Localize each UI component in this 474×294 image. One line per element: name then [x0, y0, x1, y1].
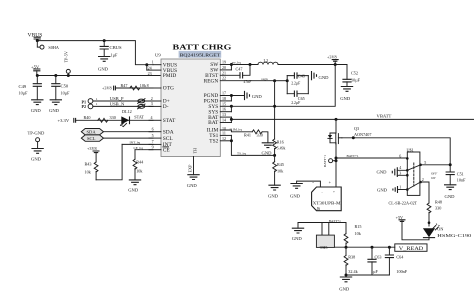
svg-text:C63: C63 [375, 255, 382, 260]
wire STAT net [76, 119, 153, 121]
power +3.3V flag [58, 118, 76, 123]
svg-text:TP-5V: TP-5V [64, 51, 69, 62]
svg-text:OFF: OFF [431, 171, 437, 175]
svg-text:1: 1 [399, 184, 401, 189]
wire BATT+ to switch [336, 157, 407, 159]
svg-text:BATT CHRG: BATT CHRG [173, 43, 232, 52]
wire LED to +5V [402, 221, 429, 240]
ground TH5 [292, 228, 304, 233]
node junction PGND [230, 94, 233, 97]
wire BATT+ down to connector [335, 158, 337, 187]
svg-text:OTG: OTG [163, 86, 174, 92]
svg-text:10k: 10k [136, 168, 143, 173]
ground R41 [262, 143, 274, 148]
svg-text:100nF: 100nF [396, 269, 407, 274]
wire REGN to caps [275, 80, 288, 82]
ground divider [340, 277, 352, 282]
node junction TS [230, 139, 233, 142]
LED DS ON HSMG-C190 [423, 221, 471, 238]
pin stub 16 [220, 107, 231, 112]
svg-text:HSMG-C190: HSMG-C190 [437, 233, 471, 238]
svg-text:330: 330 [435, 205, 441, 210]
svg-text:BAT: BAT [208, 120, 219, 126]
ground TP-GND [31, 149, 43, 154]
capacitor C48 2.2uF [287, 72, 308, 85]
svg-text:10nF: 10nF [457, 178, 466, 183]
pin stub 19 [220, 59, 231, 64]
capacitor C65 2.2uF [287, 91, 308, 105]
ground R45 [268, 185, 280, 190]
svg-text:2.2µF: 2.2µF [291, 101, 300, 105]
power +3V8 flag OTG [102, 86, 115, 91]
node junction C49 [36, 74, 39, 77]
node junction REGN [273, 79, 276, 82]
svg-text:USB_N: USB_N [110, 102, 125, 107]
connector J6 XT30UPB-M [312, 180, 342, 211]
svg-text:7: 7 [152, 139, 154, 144]
IC U9 BQ24195 body [161, 59, 220, 157]
pin stub 14 [220, 118, 231, 123]
node junction gate/C51 [449, 163, 452, 166]
svg-text:3: 3 [151, 101, 153, 106]
wire Q3 gate net [342, 138, 450, 172]
pin stub 22 [220, 76, 274, 81]
wire SW tie [230, 65, 232, 70]
pin EXP pad stub [188, 157, 194, 175]
svg-text:sw_bq: sw_bq [232, 61, 241, 65]
ground C52 [341, 87, 353, 92]
svg-text:10µF: 10µF [61, 90, 71, 95]
svg-text:CBUS: CBUS [110, 45, 122, 50]
ground R44 [129, 180, 141, 185]
svg-text:GND: GND [31, 157, 42, 162]
svg-text:C50: C50 [61, 83, 69, 88]
svg-text:R48: R48 [435, 199, 442, 204]
svg-text:10k: 10k [140, 83, 147, 88]
svg-text:C52: C52 [351, 70, 358, 75]
pin stub 8 [147, 83, 161, 88]
wire TH5 gnd stem [297, 223, 299, 229]
svg-text:R43: R43 [85, 161, 92, 166]
resistor R15 10k [344, 223, 362, 248]
connector P2 [82, 102, 98, 109]
thermistor TH5 [316, 235, 334, 250]
svg-text:P2: P2 [82, 104, 87, 109]
pin stub 11 [220, 130, 231, 135]
wire switch pin2 [421, 182, 429, 203]
node junction C47/SW [249, 63, 252, 66]
node junction CBUS [103, 39, 106, 42]
node junction pin1 [145, 63, 148, 66]
svg-text:16: 16 [222, 107, 226, 112]
svg-text:20: 20 [222, 65, 226, 70]
ground C48 sideways [312, 71, 317, 80]
wire switch pin5 to gate net [421, 164, 451, 166]
node junction R16/R45 [273, 154, 276, 157]
jumper USB_N [138, 104, 145, 109]
svg-text:CE: CE [163, 147, 171, 153]
svg-text:6: 6 [152, 126, 154, 131]
pin stub 13 [220, 112, 231, 117]
svg-text:10µF: 10µF [351, 77, 361, 82]
svg-text:GND: GND [128, 187, 139, 192]
power +5V flag LED [396, 215, 406, 222]
svg-text:R15: R15 [355, 224, 362, 229]
pin stub 12 [220, 136, 231, 141]
svg-text:REGN: REGN [204, 78, 219, 84]
pin stub 20 [220, 65, 231, 70]
svg-text:regn: regn [262, 77, 268, 81]
svg-text:BATT+1: BATT+1 [329, 219, 341, 223]
svg-text:+3.3V: +3.3V [58, 118, 70, 123]
capacitor C64 100nF [385, 247, 408, 275]
net SDA oval [81, 129, 103, 135]
pin stub 6 [149, 126, 161, 131]
resistor R38 32.4k [344, 247, 359, 275]
svg-text:R40: R40 [84, 115, 91, 120]
jumper USB_P [138, 99, 145, 104]
wire caps left rail [286, 76, 288, 94]
svg-text:GND: GND [252, 94, 263, 99]
node junction SYS/chain [273, 105, 276, 108]
svg-text:+3V8: +3V8 [327, 55, 337, 60]
ground switch pin1 sideways [377, 186, 407, 193]
svg-text:21: 21 [222, 70, 226, 75]
resistor R45 10k [273, 155, 284, 185]
node VBUS flag [28, 33, 43, 40]
value highlight BQ24195LRGET [179, 51, 222, 58]
svg-text:23: 23 [148, 71, 152, 76]
svg-text:330: 330 [110, 115, 116, 120]
capacitor C63 1uF [367, 247, 381, 275]
svg-text:XT30UPB-M: XT30UPB-M [313, 200, 341, 205]
testpoint BATT+1 [323, 155, 338, 167]
svg-text:GND: GND [319, 75, 330, 80]
pin stub 15 [220, 101, 231, 106]
svg-text:1: 1 [96, 102, 98, 106]
node junction caps left [286, 79, 289, 82]
svg-text:2: 2 [422, 177, 424, 182]
node junction VBUS/TP [36, 39, 39, 42]
node junction SYS [230, 105, 233, 108]
svg-text:R47: R47 [121, 83, 128, 88]
svg-text:1µF: 1µF [371, 269, 379, 274]
capacitor CBUS [100, 41, 122, 58]
pin stub 3 [149, 101, 161, 106]
svg-text:R45: R45 [277, 162, 284, 167]
svg-text:BQ24195LRGET: BQ24195LRGET [180, 52, 221, 57]
svg-text:10µF: 10µF [19, 90, 29, 95]
svg-text:VBATT: VBATT [377, 114, 392, 119]
capacitor C52 10uF [342, 65, 360, 87]
svg-text:11: 11 [222, 130, 226, 135]
svg-text:1: 1 [96, 97, 98, 101]
svg-text:C64: C64 [396, 255, 404, 260]
svg-text:TP-GND: TP-GND [28, 131, 46, 136]
wire connector minus to ground [297, 181, 321, 187]
svg-text:5: 5 [424, 160, 426, 165]
pin stub 9 [149, 145, 161, 150]
svg-text:C48: C48 [298, 73, 305, 78]
svg-text:GND: GND [377, 187, 388, 192]
node junction R15/R38 [345, 246, 348, 249]
resistor R40 330 [84, 115, 116, 122]
pin stub 1 [152, 60, 161, 65]
svg-text:330: 330 [257, 133, 263, 138]
capacitor C50 10uF [51, 76, 70, 100]
wire INT [122, 143, 153, 145]
resistor R48 330 [427, 199, 442, 226]
svg-text:GND: GND [187, 183, 198, 188]
power +3V8 flag rail [327, 55, 339, 65]
wire VBUS pin tie [146, 65, 148, 70]
ground EXP [187, 175, 199, 180]
wire caps right rail [307, 76, 309, 94]
label OFF ON [431, 171, 437, 180]
pin stub 23 [148, 71, 152, 76]
power +3V8 flag R43 [87, 146, 100, 153]
svg-text:8: 8 [147, 83, 149, 88]
svg-text:10k: 10k [277, 168, 284, 173]
ground connector [290, 184, 302, 189]
svg-text:C49: C49 [19, 84, 27, 89]
node junction C64 top [388, 246, 391, 249]
node junction gate [352, 136, 355, 139]
svg-text:INT_bq: INT_bq [130, 140, 141, 144]
svg-text:V_READ: V_READ [399, 247, 424, 252]
wire TH5 top rail [298, 222, 346, 224]
svg-text:24: 24 [148, 66, 152, 71]
pin stub 17 [220, 91, 244, 96]
svg-text:BATT+1: BATT+1 [347, 154, 359, 158]
wire BAT tie [230, 117, 232, 122]
svg-text:10k: 10k [85, 170, 92, 175]
svg-text:USB_P: USB_P [110, 96, 124, 101]
svg-text:+: + [333, 190, 335, 194]
svg-text:D-: D- [163, 104, 169, 110]
wire USB_P [93, 100, 153, 102]
svg-text:22: 22 [222, 76, 226, 81]
svg-text:R38: R38 [348, 254, 355, 259]
testpoint SOHA [40, 45, 44, 49]
svg-text:TH5: TH5 [320, 245, 328, 250]
svg-text:DL12: DL12 [122, 109, 132, 114]
resistor R47 10k [121, 83, 147, 90]
svg-text:3: 3 [399, 170, 401, 175]
pin name CE [163, 147, 171, 154]
svg-text:17: 17 [222, 91, 226, 96]
svg-text:Q3: Q3 [354, 126, 359, 131]
svg-text:C47: C47 [236, 67, 243, 72]
node junction SW [230, 63, 233, 66]
svg-text:5.49k: 5.49k [277, 146, 286, 150]
svg-text:2: 2 [151, 96, 153, 101]
wire TH5 pins [322, 223, 329, 236]
pin stub 4 [149, 115, 161, 120]
wire USB_N [93, 105, 153, 107]
svg-text:TH: TH [193, 148, 198, 154]
wire sense node row [335, 246, 395, 248]
node junction gnd row [345, 274, 348, 277]
svg-text:TS_bq: TS_bq [237, 151, 246, 155]
wire L2 to +3V8 rail [278, 64, 347, 66]
net V_READ box [395, 244, 427, 252]
capacitor C51 10nF [446, 172, 466, 185]
wire TP stub [37, 41, 40, 48]
svg-text:U9: U9 [155, 53, 161, 58]
svg-text:+3V8: +3V8 [102, 86, 112, 91]
ground PGND sideways [245, 91, 250, 100]
svg-text:12: 12 [222, 136, 226, 141]
svg-text:R16: R16 [277, 139, 284, 144]
ground C49 [31, 100, 43, 105]
wire INT pulldown [96, 144, 122, 179]
net SCL oval [81, 135, 103, 141]
resistor R16 5.49k [273, 139, 286, 155]
svg-text:S0HA: S0HA [48, 45, 58, 50]
node junction C50 [54, 74, 57, 77]
LED DL12 [120, 109, 132, 127]
svg-text:GND: GND [339, 287, 350, 292]
wire REGN vertical chain [274, 81, 276, 139]
svg-text:GND: GND [268, 193, 279, 198]
svg-text:15: 15 [222, 101, 226, 106]
wire SW to L2 [231, 64, 258, 66]
transistor Q3 AON7407 [328, 119, 372, 158]
svg-text:+3V8: +3V8 [87, 146, 97, 151]
pin stub 7 [149, 139, 161, 144]
wire OTG [115, 87, 153, 89]
svg-text:GND: GND [377, 170, 388, 175]
svg-text:AON7407: AON7407 [354, 132, 371, 137]
svg-text:GND: GND [31, 108, 42, 113]
svg-text:CL-SB-22A-02T: CL-SB-22A-02T [389, 200, 418, 205]
svg-text:GND: GND [49, 108, 60, 113]
svg-text:19: 19 [222, 59, 226, 64]
ground CBUS [98, 57, 110, 62]
svg-text:STAT: STAT [163, 118, 176, 124]
capacitor C49 10uF [19, 76, 42, 100]
svg-text:6: 6 [399, 153, 401, 158]
svg-text:SCL: SCL [163, 136, 173, 142]
svg-text:TS2: TS2 [209, 139, 218, 145]
svg-text:1: 1 [152, 60, 154, 65]
svg-text:J6: J6 [317, 206, 321, 211]
svg-text:18: 18 [222, 96, 226, 101]
inductor L2 [258, 58, 278, 65]
ground C51 [444, 185, 456, 190]
svg-text:GND: GND [262, 150, 273, 155]
wire gnd row [346, 274, 389, 276]
node junction VBATT/Q3 [335, 118, 338, 121]
pin stub 18 [220, 96, 231, 101]
svg-text:BATT+1: BATT+1 [323, 155, 327, 167]
wire TS tie [231, 135, 274, 155]
pin stub 2 [149, 96, 161, 101]
svg-text:32.4k: 32.4k [348, 269, 358, 274]
svg-text:GND: GND [340, 96, 351, 101]
svg-text:SCL: SCL [87, 136, 96, 141]
pin stub 10 ILIM [220, 126, 252, 132]
testpoint TP-GND [28, 131, 46, 149]
svg-text:SDA: SDA [87, 130, 97, 135]
svg-text:GND: GND [445, 194, 456, 199]
svg-text:13: 13 [222, 112, 226, 117]
svg-text:-: - [322, 190, 323, 194]
svg-text:14: 14 [222, 118, 226, 123]
node junction BATT+ [335, 157, 338, 160]
svg-text:ON: ON [437, 227, 443, 232]
svg-text:EXP: EXP [188, 164, 193, 173]
svg-text:2.2µF: 2.2µF [291, 82, 300, 86]
node junction C63 top [371, 246, 374, 249]
svg-text:5: 5 [152, 133, 154, 138]
wire SDA [104, 131, 154, 133]
svg-text:1µF: 1µF [111, 53, 119, 58]
capacitor C47 47nF [236, 65, 252, 84]
pin stub 24 [147, 66, 161, 71]
svg-text:STAT: STAT [134, 115, 144, 120]
wire PGND tie [230, 96, 232, 101]
connector P1 [82, 97, 98, 105]
wire CE [135, 149, 153, 151]
power +5V flag [31, 64, 40, 75]
ground switch pin4 sideways [377, 167, 408, 177]
svg-text:GND: GND [98, 67, 109, 72]
node junction rail [334, 63, 337, 66]
svg-text:ILIM_bq: ILIM_bq [230, 128, 243, 132]
resistor R41 330 [244, 130, 268, 143]
svg-text:C51: C51 [457, 172, 464, 177]
switch U$1 CL-SB-22A-02T [389, 147, 427, 205]
svg-text:CE_bq: CE_bq [134, 146, 144, 150]
wire +5V rail to PMID [37, 75, 161, 77]
resistor R43 10k [85, 153, 99, 180]
pin stub 5 [149, 133, 161, 138]
testpoint TP-5V [64, 51, 71, 75]
wire SYS tie [230, 106, 232, 111]
pin stub 21 [220, 70, 240, 75]
wire VBATT [231, 118, 474, 120]
wire SCL [104, 137, 154, 139]
svg-text:SDA: SDA [163, 129, 174, 135]
node junction TP-5V [67, 74, 70, 77]
svg-text:10k: 10k [355, 231, 362, 236]
svg-text:GND: GND [290, 193, 301, 198]
svg-text:GND: GND [292, 236, 303, 241]
svg-text:9: 9 [152, 145, 154, 150]
svg-text:4: 4 [151, 115, 153, 120]
svg-text:R44: R44 [136, 160, 144, 165]
wire SYS rail [231, 65, 335, 107]
svg-text:+5V: +5V [396, 215, 403, 220]
wire VBUS rail [37, 41, 153, 65]
ground C50 [50, 100, 62, 105]
svg-text:PMID: PMID [163, 73, 177, 79]
svg-text:R41: R41 [244, 133, 251, 138]
resistor R44 10k [133, 150, 144, 180]
node junction BAT [230, 118, 233, 121]
